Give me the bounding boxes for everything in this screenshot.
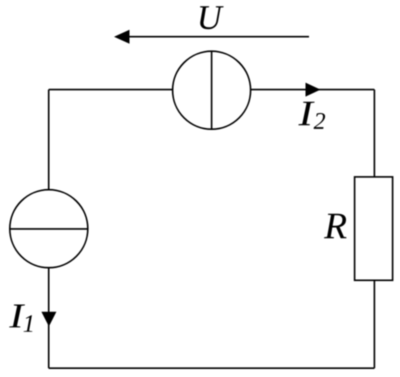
- label R: [324, 214, 347, 239]
- wire right vertical lower: [373, 280, 375, 368]
- wire left vertical upper: [48, 90, 50, 191]
- wire top-right horizontal: [251, 89, 375, 91]
- wire top-left horizontal: [49, 89, 173, 91]
- voltage arrow U line: [129, 36, 310, 38]
- current source I1 internal bar: [10, 228, 88, 230]
- label I1 letter I: [9, 305, 25, 328]
- wire bottom horizontal: [49, 367, 375, 369]
- label I2 letter I: [298, 102, 314, 126]
- wire left vertical lower: [48, 267, 50, 368]
- resistor R body: [355, 177, 393, 280]
- label U: [200, 6, 224, 29]
- label I2 subscript 2: [314, 113, 326, 129]
- arrow I1 head: [41, 312, 56, 327]
- voltage arrow U head: [114, 30, 130, 44]
- wire right vertical upper: [373, 90, 375, 177]
- arrow I2 head: [306, 83, 321, 97]
- source U circle: [173, 51, 251, 129]
- label I1 subscript 1: [24, 315, 33, 332]
- current source I1 circle: [10, 190, 88, 268]
- source U internal bar: [211, 51, 213, 129]
